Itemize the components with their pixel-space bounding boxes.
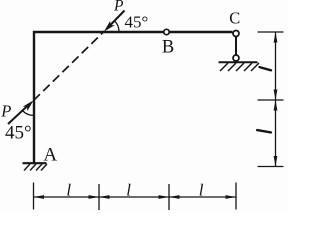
bottom dimension arrowheads bbox=[34, 195, 237, 199]
arrowhead of top force P bbox=[104, 21, 115, 32]
height label l (lower, rotated italic) bbox=[257, 130, 271, 132]
ground line at C support bbox=[219, 61, 258, 63]
hinge B (circle on beam) bbox=[164, 29, 169, 34]
svg-text:C: C bbox=[229, 8, 240, 27]
bottom dimension ticks bbox=[34, 183, 237, 211]
svg-text:45°: 45° bbox=[5, 123, 32, 144]
svg-text:l: l bbox=[66, 181, 71, 200]
arrowhead of bottom force P bbox=[23, 100, 34, 111]
dashed line of action of forces P bbox=[34, 31, 105, 101]
force P at column (bottom), arrow shaft bbox=[8, 104, 30, 125]
force P at beam (top), arrow shaft bbox=[107, 11, 125, 29]
fixed support ground line at A bbox=[23, 162, 47, 164]
right dimension line bbox=[275, 32, 277, 167]
angle arc 45 deg at top bbox=[115, 21, 119, 32]
svg-text:P: P bbox=[0, 102, 11, 121]
bottom dimension line bbox=[34, 196, 237, 198]
svg-text:l: l bbox=[126, 181, 131, 200]
hatching at support C bbox=[220, 63, 259, 71]
height label l (upper, rotated italic) bbox=[260, 67, 271, 70]
angle arc 45 deg at bottom bbox=[23, 111, 34, 115]
hinge circle at C (top of link) bbox=[233, 31, 239, 37]
frame member: column A to corner and beam to C bbox=[34, 32, 233, 164]
svg-text:P: P bbox=[113, 0, 124, 15]
right dimension arrowheads bbox=[274, 32, 278, 167]
right dimension ticks bbox=[258, 32, 284, 167]
svg-text:A: A bbox=[43, 145, 57, 166]
svg-text:45°: 45° bbox=[125, 12, 149, 31]
support link C bbox=[235, 37, 237, 56]
hatching at support A bbox=[24, 164, 47, 171]
pin circle at base of link C bbox=[233, 55, 239, 61]
svg-text:B: B bbox=[162, 37, 174, 57]
svg-text:l: l bbox=[199, 181, 204, 200]
